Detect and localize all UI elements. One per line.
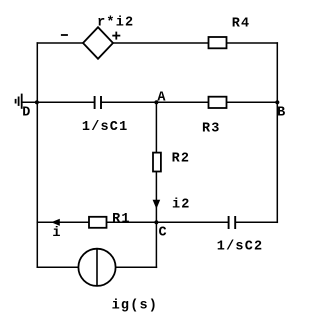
- wire bottom to source left: [37, 266, 78, 268]
- svg-text:ig(s): ig(s): [112, 298, 159, 313]
- wire C2 to right vertical: [236, 221, 278, 223]
- wire R1 to node C: [107, 221, 156, 223]
- current source ig: [78, 249, 115, 286]
- wire top middle segment: [113, 42, 208, 44]
- ground at D: [16, 94, 22, 109]
- resistor R3: [209, 97, 227, 108]
- resistor R2: [153, 153, 161, 172]
- minus sign of source: [61, 34, 68, 36]
- wire source right to C branch: [116, 266, 157, 268]
- wire node C down to bottom: [155, 222, 157, 267]
- svg-text:R1: R1: [112, 212, 131, 227]
- wire middle left (ground to C1): [22, 101, 95, 103]
- dependent source diamond: [83, 27, 113, 59]
- node C: [154, 220, 158, 224]
- svg-text:R3: R3: [202, 122, 221, 137]
- svg-text:D: D: [22, 105, 31, 120]
- wire top right segment: [227, 42, 277, 44]
- wire node C to C2: [156, 221, 228, 223]
- wire R2 down to node C: [155, 172, 157, 223]
- plus sign of source: [112, 32, 120, 40]
- capacitor C2: [229, 216, 236, 229]
- wire left vertical: [36, 43, 38, 267]
- wire right vertical lower: [276, 102, 278, 222]
- wire right vertical upper: [276, 43, 278, 102]
- wire middle center (C1 to R3): [101, 101, 208, 103]
- svg-text:B: B: [277, 105, 286, 120]
- current arrow i (left): [52, 219, 59, 225]
- svg-text:i: i: [52, 226, 61, 241]
- node B: [275, 100, 279, 104]
- resistor R1: [89, 217, 107, 228]
- svg-text:R4: R4: [232, 16, 251, 31]
- svg-text:A: A: [157, 91, 166, 106]
- wire top left segment: [37, 42, 83, 44]
- node D: [35, 100, 39, 104]
- wire node A down to R2: [155, 102, 157, 152]
- current arrow i2 (down): [153, 200, 159, 208]
- svg-text:r*i2: r*i2: [97, 16, 134, 31]
- svg-text:1/sC2: 1/sC2: [217, 240, 264, 255]
- svg-text:R2: R2: [172, 151, 191, 166]
- node A: [154, 100, 158, 104]
- resistor R4: [209, 37, 227, 48]
- wire bottom-left to R1: [37, 221, 88, 223]
- capacitor C1: [95, 96, 101, 109]
- svg-text:i2: i2: [172, 197, 191, 212]
- svg-text:C: C: [159, 225, 168, 240]
- current source internal line: [96, 249, 98, 286]
- svg-text:1/sC1: 1/sC1: [82, 120, 129, 135]
- wire middle right (R3 to B): [227, 101, 278, 103]
